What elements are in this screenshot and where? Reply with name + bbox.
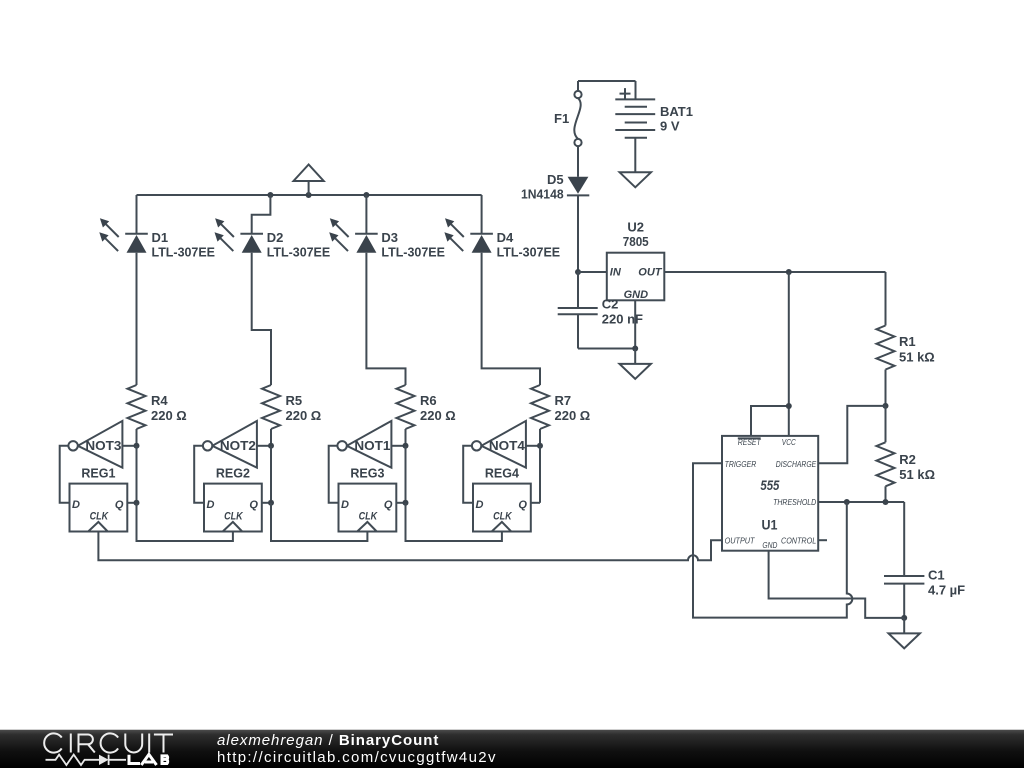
wire NOT1 out to D [329, 446, 339, 503]
resistor R6 220 Ohm [397, 385, 456, 446]
svg-text:220 Ω: 220 Ω [286, 408, 322, 423]
svg-text:LTL-307EE: LTL-307EE [497, 244, 561, 259]
svg-text:D4: D4 [497, 230, 514, 245]
supply arrow V+ [294, 165, 324, 196]
svg-text:D: D [476, 499, 484, 511]
resistor R5 220 Ohm [262, 385, 321, 446]
svg-text:OUTPUT: OUTPUT [725, 536, 756, 546]
svg-text:51 kΩ: 51 kΩ [899, 350, 935, 365]
svg-text:555: 555 [760, 478, 779, 493]
wire threshold [818, 499, 904, 505]
wire U1 GND to ground [769, 551, 905, 618]
inverter NOT4 [472, 421, 540, 468]
svg-text:C2: C2 [602, 297, 619, 312]
LED D1 LTL-307EE [99, 195, 215, 385]
node NOT2 input [268, 443, 274, 503]
svg-text:CLK: CLK [359, 510, 378, 522]
wire Q3 to REG4 CLK [406, 503, 502, 541]
svg-text:LTL-307EE: LTL-307EE [381, 244, 445, 259]
node NOT3 input [134, 443, 140, 503]
svg-text:D2: D2 [267, 230, 284, 245]
flip-flop REG1 [70, 466, 128, 532]
svg-text:220 Ω: 220 Ω [555, 408, 591, 423]
svg-text:OUT: OUT [638, 267, 663, 279]
node IN (U2 input) [575, 269, 607, 275]
fuse F1 [554, 91, 582, 146]
svg-text:1N4148: 1N4148 [521, 187, 564, 202]
wire battery top [578, 81, 636, 99]
svg-text:R1: R1 [899, 334, 916, 349]
LED D3 LTL-307EE [329, 195, 445, 385]
footer url text [217, 749, 497, 766]
resistor R4 220 Ohm [128, 385, 187, 446]
svg-text:GND: GND [762, 540, 777, 550]
svg-text:R2: R2 [899, 452, 916, 467]
inverter NOT3 [68, 421, 136, 468]
diode D5 1N4148 [521, 146, 589, 272]
node NOT4 input [537, 443, 543, 503]
wire Q1 to REG2 CLK [137, 503, 233, 541]
svg-text:CLK: CLK [224, 510, 243, 522]
wire REG2 Q [262, 500, 274, 506]
svg-text:TRIGGER: TRIGGER [725, 459, 757, 469]
wire 5V rail from OUT [664, 269, 885, 275]
svg-text:220 Ω: 220 Ω [420, 408, 456, 423]
svg-text:CLK: CLK [493, 510, 512, 522]
flip-flop REG4 [473, 466, 531, 532]
svg-text:THRESHOLD: THRESHOLD [773, 497, 816, 507]
svg-text:4.7 µF: 4.7 µF [928, 583, 965, 598]
svg-text:CLK: CLK [90, 510, 109, 522]
wire U2 GND pin [632, 300, 638, 351]
wire trigger-threshold with hop [693, 463, 852, 617]
svg-text:NOT1: NOT1 [354, 438, 390, 453]
svg-text:9 V: 9 V [660, 119, 680, 134]
svg-text:220 nF: 220 nF [602, 312, 643, 327]
svg-text:REG1: REG1 [81, 466, 115, 481]
svg-text:D: D [72, 499, 80, 511]
resistor R1 51 kOhm [877, 272, 935, 406]
capacitor C1 4.7 uF [884, 502, 965, 618]
resistor R7 220 Ohm [531, 385, 590, 446]
wire NOT4 out to D [463, 446, 473, 503]
flip-flop REG2 [204, 466, 262, 532]
svg-text:R4: R4 [151, 393, 168, 408]
wire NOT3 out to D [60, 446, 70, 503]
svg-text:D3: D3 [381, 230, 398, 245]
wire discharge jog [818, 406, 885, 463]
wire REG4 Q [531, 502, 540, 504]
svg-text:7805: 7805 [623, 234, 649, 249]
svg-text:GND: GND [624, 289, 649, 301]
wire REG3 Q [396, 500, 408, 506]
battery BAT1 9 V [615, 88, 693, 172]
svg-text:R7: R7 [555, 393, 572, 408]
svg-text:NOT3: NOT3 [85, 438, 121, 453]
flip-flop REG3 [339, 466, 397, 532]
svg-text:D1: D1 [152, 230, 169, 245]
svg-text:Q: Q [249, 499, 258, 511]
node C1 ground [901, 615, 907, 621]
wire control stub [818, 539, 827, 541]
inverter NOT2 [203, 421, 271, 468]
node R1/R2/discharge [883, 403, 889, 409]
svg-text:U1: U1 [762, 517, 778, 533]
svg-text:RESET: RESET [738, 437, 762, 447]
resistor R2 51 kOhm [877, 406, 936, 502]
wire LED supply rail [137, 192, 482, 198]
svg-text:REG4: REG4 [485, 466, 520, 481]
wire 555 output to clock line with hop [98, 532, 722, 561]
svg-text:Q: Q [115, 499, 124, 511]
svg-text:R6: R6 [420, 393, 437, 408]
svg-text:NOT2: NOT2 [220, 438, 256, 453]
inverter NOT1 [337, 421, 405, 468]
svg-text:U2: U2 [627, 220, 644, 235]
wire Q2 to REG3 CLK [271, 503, 367, 541]
svg-text:LTL-307EE: LTL-307EE [267, 244, 331, 259]
ground (C1) [889, 618, 920, 649]
svg-text:R5: R5 [286, 393, 303, 408]
ground (battery) [620, 172, 651, 187]
svg-text:DISCHARGE: DISCHARGE [776, 459, 817, 469]
svg-text:REG3: REG3 [350, 466, 384, 481]
svg-text:51 kΩ: 51 kΩ [899, 467, 935, 482]
svg-text:BAT1: BAT1 [660, 104, 693, 119]
svg-text:D5: D5 [547, 172, 564, 187]
svg-text:NOT4: NOT4 [489, 438, 526, 453]
svg-text:Q: Q [518, 499, 527, 511]
footer bar [0, 729, 1024, 768]
svg-text:CONTROL: CONTROL [781, 536, 816, 546]
wire REG1 Q [127, 500, 139, 506]
ground (U2 / C2) [620, 349, 651, 379]
capacitor C2 220 nF [558, 272, 643, 349]
logo CIRCUIT LAB [44, 733, 173, 752]
op-amp U2 7805 regulator box [607, 220, 665, 301]
svg-text:REG2: REG2 [216, 466, 250, 481]
LED D2 LTL-307EE [215, 195, 331, 385]
node NOT1 input [403, 443, 409, 503]
wire VCC pin [788, 272, 790, 436]
svg-text:F1: F1 [554, 111, 569, 126]
svg-text:Q: Q [384, 499, 393, 511]
svg-text:C1: C1 [928, 568, 945, 583]
LED D4 LTL-307EE [444, 195, 560, 385]
wire RESET pin [751, 403, 792, 436]
svg-text:D: D [207, 499, 215, 511]
svg-text:220 Ω: 220 Ω [151, 408, 187, 423]
svg-text:D: D [341, 499, 349, 511]
svg-text:VCC: VCC [782, 437, 797, 447]
wire NOT2 out to D [194, 446, 204, 503]
op-amp U1 555 timer box [722, 436, 818, 551]
svg-text:LTL-307EE: LTL-307EE [152, 244, 216, 259]
footer attribution text [217, 732, 439, 749]
svg-text:IN: IN [610, 267, 622, 279]
